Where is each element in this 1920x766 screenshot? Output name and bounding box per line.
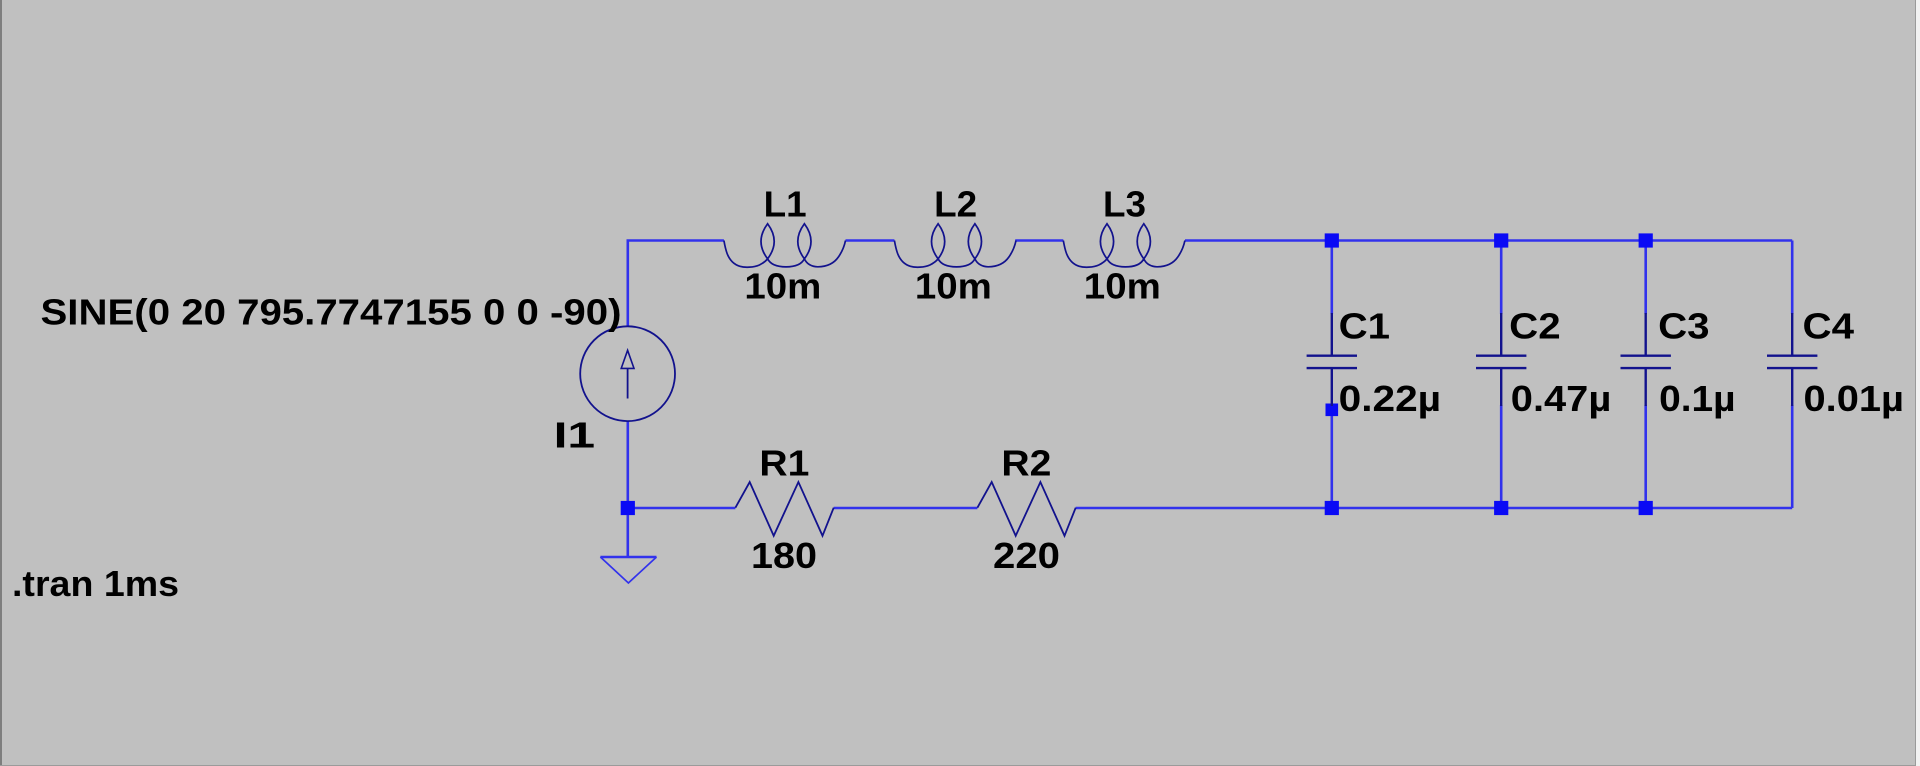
wire bottom rail from ground node to R1 bbox=[628, 507, 736, 510]
svg-text:L1: L1 bbox=[764, 184, 807, 225]
node junction top C1 bbox=[1325, 233, 1339, 247]
node junction ground bbox=[621, 501, 635, 515]
current source I1 bbox=[580, 326, 675, 421]
wire C1 bottom stub bbox=[1331, 405, 1334, 508]
capacitor C3 bbox=[1621, 313, 1671, 406]
svg-text:R1: R1 bbox=[759, 443, 809, 484]
inductor L1 bbox=[724, 224, 846, 268]
svg-text:10m: 10m bbox=[915, 266, 992, 307]
svg-text:0.22µ: 0.22µ bbox=[1339, 378, 1442, 419]
svg-text:0.1µ: 0.1µ bbox=[1659, 378, 1736, 419]
svg-text:L2: L2 bbox=[934, 184, 977, 225]
ground bbox=[600, 557, 656, 583]
capacitor C1 bbox=[1307, 313, 1357, 406]
node junction C1 pin bbox=[1326, 404, 1339, 417]
node junction bottom C3 bbox=[1639, 501, 1653, 515]
wire C2 bottom stub bbox=[1500, 405, 1503, 508]
svg-text:L3: L3 bbox=[1103, 184, 1146, 225]
svg-text:0.47µ: 0.47µ bbox=[1511, 378, 1612, 419]
window right border strip bbox=[1915, 0, 1916, 766]
svg-text:C2: C2 bbox=[1509, 306, 1561, 347]
wire right vertical above C4 bbox=[1791, 241, 1794, 315]
capacitor C2 bbox=[1476, 313, 1526, 406]
svg-text:.tran 1ms: .tran 1ms bbox=[12, 563, 179, 604]
svg-text:0.01µ: 0.01µ bbox=[1804, 378, 1905, 419]
svg-text:I1: I1 bbox=[554, 415, 596, 456]
wire between R1 and R2 bbox=[834, 507, 978, 510]
wire from L3 to top-right corner bbox=[1185, 239, 1792, 242]
svg-text:C4: C4 bbox=[1803, 306, 1855, 347]
wire between L2 and L3 bbox=[1015, 239, 1063, 242]
wire source bottom to ground bbox=[626, 421, 629, 557]
inductor L3 bbox=[1063, 224, 1185, 268]
wire top-left vertical from source to top rail bbox=[628, 241, 724, 327]
svg-text:220: 220 bbox=[993, 535, 1060, 576]
resistor R1 bbox=[735, 482, 833, 536]
wire C1 top stub bbox=[1331, 241, 1334, 315]
node junction top C2 bbox=[1494, 233, 1508, 247]
wire from R2 to bottom-right corner bbox=[1076, 507, 1793, 510]
svg-text:10m: 10m bbox=[1084, 266, 1161, 307]
resistor R2 bbox=[977, 482, 1075, 536]
svg-text:C3: C3 bbox=[1658, 306, 1710, 347]
node junction bottom C2 bbox=[1494, 501, 1508, 515]
svg-text:C1: C1 bbox=[1339, 306, 1391, 347]
svg-text:R2: R2 bbox=[1001, 443, 1051, 484]
wire right vertical below C4 bbox=[1791, 405, 1794, 508]
svg-text:180: 180 bbox=[751, 535, 817, 576]
wire C3 bottom stub bbox=[1644, 405, 1647, 508]
wire C3 top stub bbox=[1644, 241, 1647, 315]
capacitor C4 bbox=[1767, 313, 1817, 406]
svg-text:10m: 10m bbox=[744, 266, 821, 307]
wire between L1 and L2 bbox=[846, 239, 895, 242]
window left border bbox=[0, 0, 2, 766]
node junction bottom C1 bbox=[1325, 501, 1339, 515]
inductor L2 bbox=[894, 224, 1016, 268]
wire C2 top stub bbox=[1500, 241, 1503, 315]
node junction top C3 bbox=[1639, 233, 1653, 247]
svg-text:SINE(0 20 795.7747155 0 0 -90): SINE(0 20 795.7747155 0 0 -90) bbox=[41, 292, 622, 333]
